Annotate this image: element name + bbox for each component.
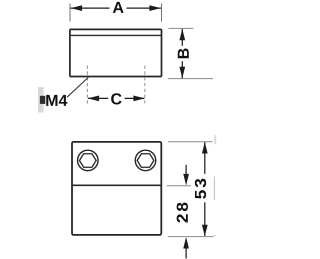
- dimension B extension line bottom: [168, 78, 213, 80]
- faint artifact tick bottom right: [213, 235, 215, 237]
- front view divide line: [72, 184, 161, 186]
- screw head circle right: [135, 150, 156, 171]
- dimension 28 upper arrow: [185, 165, 187, 175]
- gray bar artifact: [38, 87, 43, 112]
- hex socket left: [79, 154, 96, 168]
- dimension 53 arrow up: [202, 142, 208, 154]
- dimension 28 label: [177, 203, 188, 223]
- dimension C line: [88, 97, 108, 99]
- top view inner edge line: [70, 34, 161, 36]
- front view outline rect: [72, 142, 161, 235]
- dimension B line: [181, 29, 183, 46]
- dimension A line: [71, 7, 110, 9]
- M4 thread label: [46, 95, 67, 106]
- extension line middle right: [167, 185, 191, 187]
- hole axis dashed line left: [86, 66, 88, 104]
- hole axis dashed line right: [144, 66, 146, 104]
- dimension A label: [113, 2, 124, 13]
- screw head circle left: [78, 150, 99, 171]
- hex socket right: [137, 154, 154, 168]
- M4 leader line: [67, 78, 88, 98]
- dimension 53 arrow down: [202, 225, 208, 237]
- dimension 28 lower arrow: [185, 248, 187, 259]
- dimension B label: [178, 48, 189, 58]
- extension line top right: [168, 141, 213, 143]
- dimension A extension line right: [161, 4, 163, 22]
- dimension B extension line top: [168, 27, 193, 29]
- dimension B arrow up: [179, 29, 185, 41]
- faint artifact line right of 53: [213, 176, 215, 200]
- dimension C label: [111, 93, 121, 104]
- dimension A extension line left: [69, 4, 71, 22]
- dimension A arrow right: [149, 5, 161, 11]
- dimension A arrow left: [71, 5, 83, 11]
- dark square bullet: [40, 96, 45, 104]
- extension line bottom right: [168, 236, 213, 238]
- dimension C arrow left: [88, 96, 100, 102]
- dimension 53 line: [204, 142, 206, 174]
- top view outline rect: [70, 29, 162, 76]
- faint artifact bar top right: [214, 135, 216, 144]
- dimension B arrow down: [179, 67, 185, 79]
- dimension C arrow right: [133, 96, 145, 102]
- dimension 53 label: [195, 179, 206, 199]
